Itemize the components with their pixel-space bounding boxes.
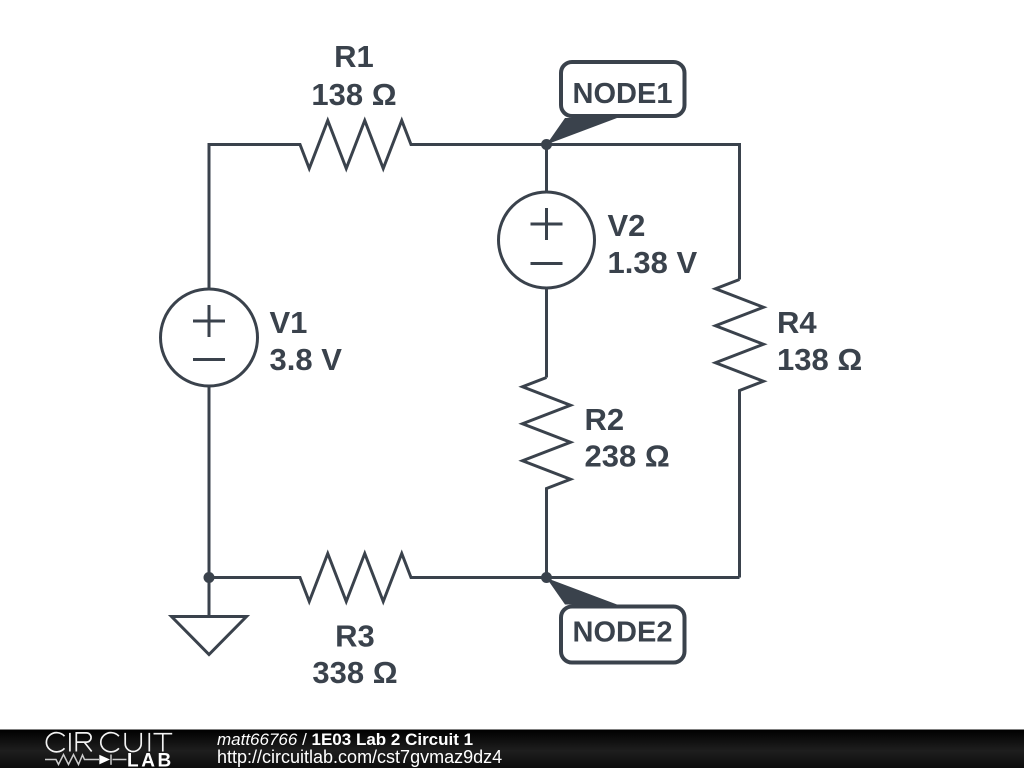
svg-text:NODE1: NODE1 [573,78,673,110]
svg-text:V2: V2 [608,208,646,243]
svg-text:R1: R1 [334,39,374,74]
svg-text:NODE2: NODE2 [573,617,673,649]
svg-text:338 Ω: 338 Ω [312,655,397,690]
svg-text:R3: R3 [335,619,375,654]
svg-text:3.8 V: 3.8 V [270,342,343,377]
svg-text:1.38 V: 1.38 V [608,245,698,280]
svg-text:138 Ω: 138 Ω [311,77,396,112]
svg-text:R4: R4 [777,305,817,340]
svg-text:http://circuitlab.com/cst7gvma: http://circuitlab.com/cst7gvmaz9dz4 [217,747,502,767]
svg-text:238 Ω: 238 Ω [585,439,670,474]
svg-text:V1: V1 [270,305,308,340]
svg-text:R2: R2 [585,402,625,437]
svg-text:138 Ω: 138 Ω [777,342,862,377]
svg-text:LAB: LAB [127,751,174,768]
